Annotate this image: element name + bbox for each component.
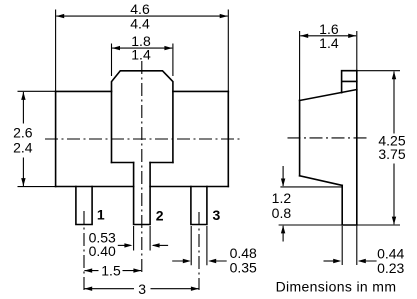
svg-text:1.4: 1.4 <box>131 47 151 63</box>
lead (side view) <box>342 185 357 225</box>
horizontal centerline (front view) <box>45 138 240 140</box>
svg-text:3.75: 3.75 <box>378 146 405 162</box>
svg-text:4.4: 4.4 <box>130 15 150 31</box>
svg-text:3: 3 <box>213 207 221 223</box>
dimension 0.53/0.40 center lead width <box>89 226 169 259</box>
centerline lead 3 <box>198 212 200 290</box>
package body outline (front view) <box>56 91 229 186</box>
centerline lead 1 <box>83 211 85 290</box>
dimension 1.6/1.4 body thickness <box>300 21 357 100</box>
svg-text:1.5: 1.5 <box>101 263 121 279</box>
dimension 4.25/3.75 overall height <box>357 71 405 225</box>
svg-text:0.8: 0.8 <box>272 205 292 221</box>
package body outline (side view) <box>300 71 357 225</box>
lead 3 (front view) <box>191 187 207 225</box>
lead 1 (front view) <box>76 187 92 225</box>
dimension 1.8/1.4 tab width <box>112 33 173 76</box>
dimension 1.2/0.8 lead length <box>272 166 400 242</box>
svg-text:0.40: 0.40 <box>89 243 116 259</box>
svg-text:0.35: 0.35 <box>230 259 257 275</box>
svg-text:0.44: 0.44 <box>377 246 404 262</box>
svg-text:1: 1 <box>97 207 105 223</box>
svg-text:0.23: 0.23 <box>377 260 404 276</box>
svg-text:2.6: 2.6 <box>13 124 33 140</box>
vertical centerline lead 2 (front view) <box>141 61 143 273</box>
dimension 3 lead span <box>84 281 199 297</box>
svg-text:Dimensions in mm: Dimensions in mm <box>276 279 397 295</box>
lead 2 center lead (front view) <box>134 163 151 225</box>
dimension 2.6/2.4 body height <box>13 91 55 186</box>
svg-text:1.4: 1.4 <box>319 35 339 51</box>
horizontal centerline (side view) <box>288 137 369 139</box>
dimension 1.5 lead pitch <box>84 263 141 279</box>
svg-text:2.4: 2.4 <box>13 139 33 155</box>
heatsink tab (side view) <box>342 71 357 93</box>
heatsink tab outline (front view) <box>112 71 173 163</box>
svg-text:1.2: 1.2 <box>272 190 292 206</box>
dimension 4.6/4.4 body width <box>56 1 229 91</box>
dimension 0.48/0.35 outer lead width <box>172 226 257 275</box>
dimension 0.44/0.23 lead thickness <box>324 226 405 276</box>
svg-text:2: 2 <box>156 207 164 223</box>
svg-text:3: 3 <box>138 281 146 297</box>
